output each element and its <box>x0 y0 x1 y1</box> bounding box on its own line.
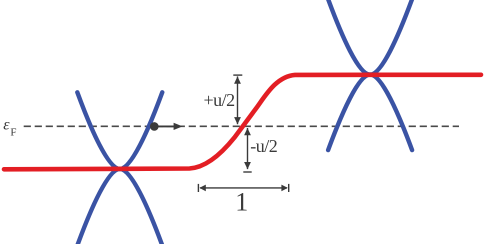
left cone upper-right branch <box>120 92 163 169</box>
left cone lower-right branch <box>120 169 163 244</box>
right cone lower-right branch <box>370 75 412 151</box>
-u/2 measurement arrow <box>243 128 251 172</box>
red band profile curve <box>4 75 481 170</box>
svg-text:ε: ε <box>3 116 10 133</box>
svg-text:-u/2: -u/2 <box>250 136 277 156</box>
l width double arrow <box>198 184 288 192</box>
arrow from dot to the right <box>154 125 175 127</box>
svg-text:+u/2: +u/2 <box>204 90 235 110</box>
left cone lower-left branch <box>77 169 120 244</box>
svg-text:1: 1 <box>235 187 248 216</box>
right cone upper-right branch <box>370 0 412 75</box>
svg-text:F: F <box>10 127 16 139</box>
dot on fermi line <box>150 122 159 131</box>
right cone lower-left branch <box>328 75 370 151</box>
right cone upper-left branch <box>328 0 370 75</box>
fermi level dashed line <box>24 125 459 127</box>
+u/2 measurement arrow <box>233 75 242 124</box>
left cone upper-left branch <box>77 92 120 169</box>
